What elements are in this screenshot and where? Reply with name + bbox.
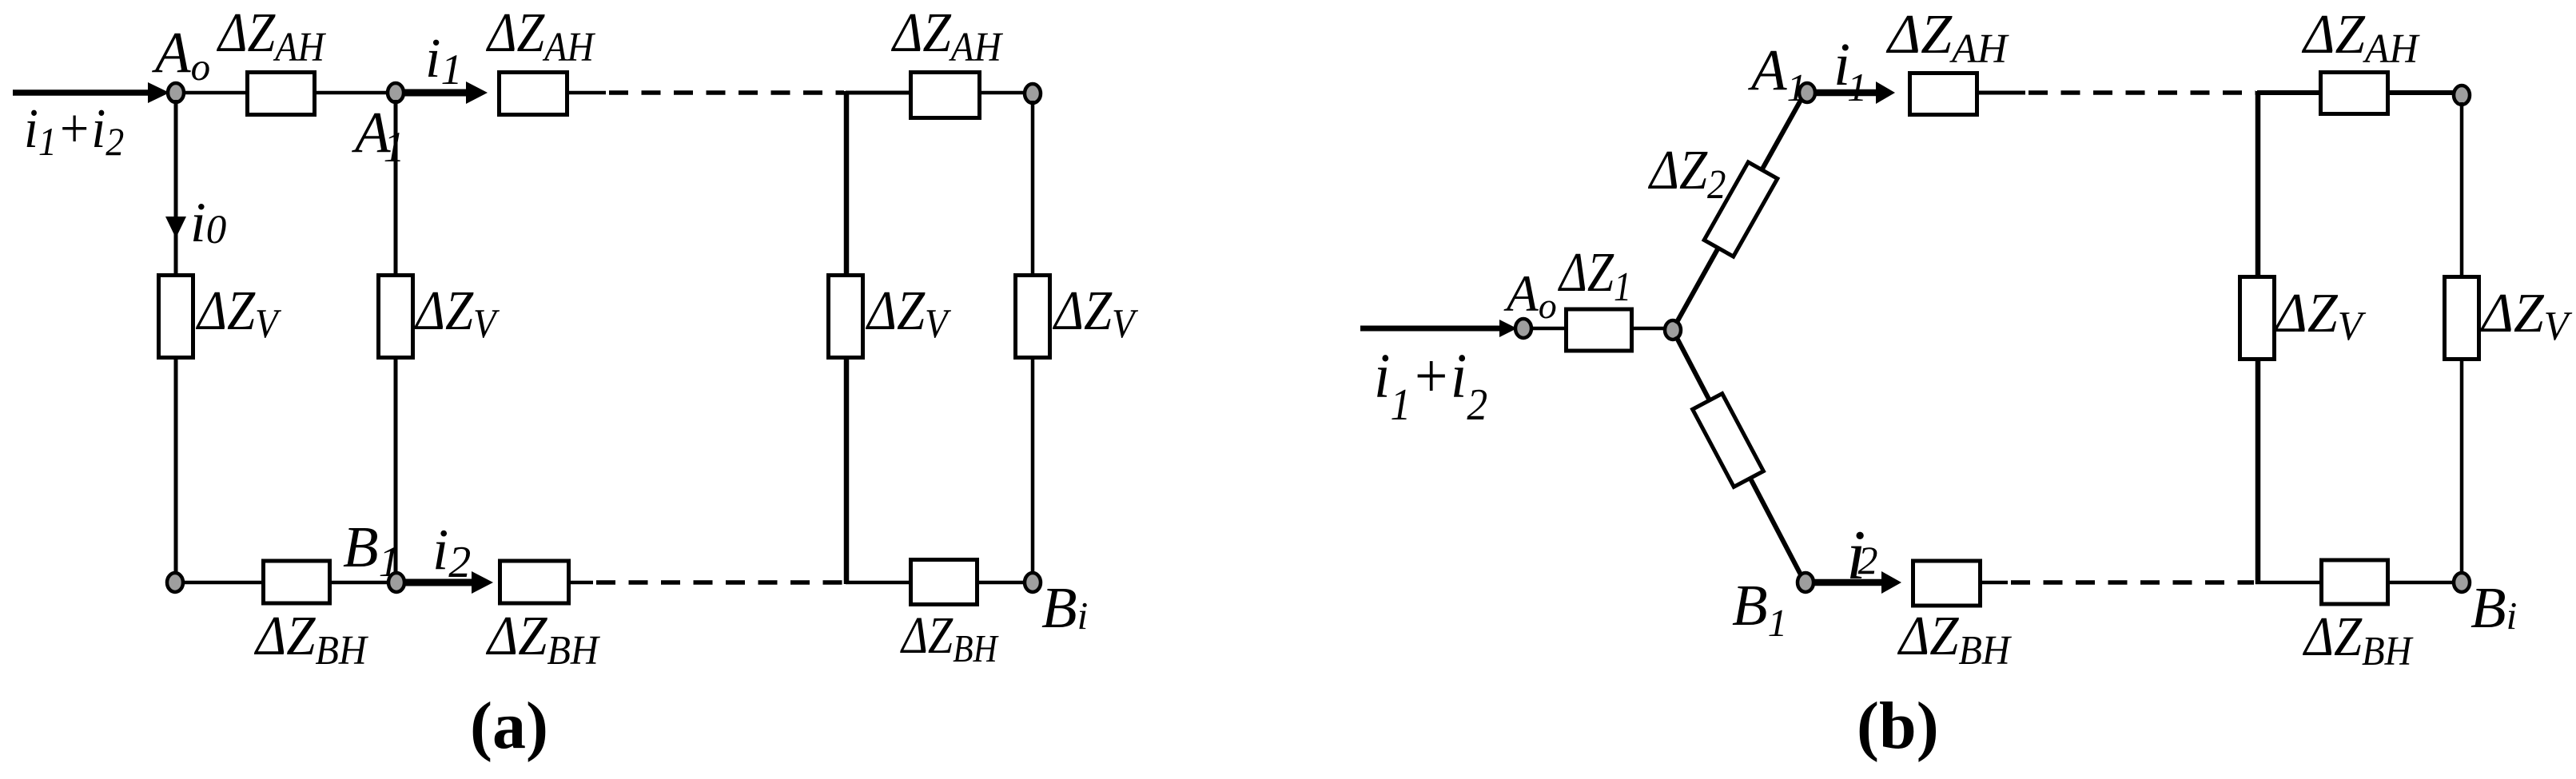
resistor ZV rail4 (b) — [2445, 277, 2479, 360]
current arrow i2 (a) — [404, 579, 472, 586]
wire rail3 to ZBH3 — [846, 581, 911, 585]
resistor ZV rail2 (a) — [379, 276, 413, 358]
resistor ZAH2 (a) — [500, 73, 567, 115]
wire rail3 lower (b) — [2255, 359, 2261, 584]
wire ZBH2 stub — [569, 581, 593, 585]
wire diagonal down to B1 (b) — [1676, 336, 1803, 579]
wire ZAH1 to node A1 — [315, 91, 390, 95]
node Bi (a) — [1025, 573, 1041, 592]
node Bi (b) — [2454, 573, 2470, 592]
wire ZBH1 stub (b) — [1981, 581, 2008, 585]
wire ZAH2 stub — [567, 91, 606, 95]
wire input feed line (b) — [1360, 326, 1501, 332]
wire Z1 to center node (b) — [1632, 327, 1668, 331]
wire ZBH1 to node B1 — [329, 581, 391, 585]
resistor Z1 (b) — [1567, 309, 1632, 351]
wire ZAH2 to top-right node (b) — [2388, 90, 2455, 95]
wire rail3 lower (a) — [844, 357, 850, 584]
wire input feed line (a) — [13, 89, 153, 96]
resistor ZAH3 (a) — [911, 73, 980, 118]
wire rail3 upper (b) — [2255, 91, 2261, 276]
wire rail3 to ZBH2 (b) — [2255, 581, 2322, 585]
resistor ZAH2 (b) — [2321, 73, 2388, 114]
wire ZBH3 to node Bi — [977, 581, 1026, 585]
resistor ZAH1 (b) — [1910, 74, 1977, 115]
wire rail Ao upper — [174, 100, 178, 275]
wire rail Ao lower — [174, 357, 178, 578]
wire rail A1 lower — [394, 357, 398, 578]
resistor ZAH1 (a) — [248, 73, 315, 115]
wire rail A1 upper — [394, 100, 398, 275]
wire dashed top (b) — [2029, 90, 2255, 95]
wire bottom-left to ZBH1 — [183, 581, 265, 585]
node A1 (b) — [1799, 83, 1815, 102]
svg-text:(a): (a) — [470, 689, 548, 763]
wire rail4 upper (b) — [2460, 102, 2464, 276]
wire dashed bottom (b) — [2011, 580, 2254, 585]
wire rail4 upper (a) — [1031, 101, 1035, 275]
wire Ao to resistor Z1 (b) — [1531, 327, 1567, 331]
wire ZAH3 to top-right node — [981, 91, 1026, 95]
node A1 (a) — [388, 83, 404, 102]
arrowhead into node Ao (b) — [1499, 320, 1517, 337]
resistor ZBH1 (a) — [264, 561, 330, 603]
node B1 (b) — [1798, 573, 1814, 592]
wire Ao to resistor ZAH1 — [184, 91, 248, 95]
resistor Z2 diagonal (b) — [1704, 162, 1778, 256]
wire rail3 upper (a) — [844, 91, 850, 275]
wire rail3 to resistor ZAH3 — [846, 91, 911, 95]
wire diagonal up to A1 (b) — [1676, 96, 1803, 324]
node bottom-left (a) — [167, 573, 183, 592]
current arrow i0 (a) — [165, 217, 186, 238]
resistor ZBH1 (b) — [1913, 561, 1981, 606]
resistor ZV rail1 (a) — [159, 276, 193, 358]
node center Y junction (b) — [1665, 320, 1681, 340]
resistor ZV rail4 (a) — [1016, 276, 1050, 358]
node B1 (a) — [388, 573, 404, 592]
resistor ZV rail3 (b) — [2240, 277, 2275, 360]
resistor ZBH2 (b) — [2322, 560, 2388, 604]
resistor ZV rail3 (a) — [829, 276, 863, 358]
current arrow i1 (b) — [1815, 89, 1876, 97]
node top-right (b) — [2454, 85, 2470, 105]
wire ZAH1 stub (b) — [1977, 91, 2025, 95]
node Ao (a) — [168, 83, 184, 102]
node top-right (a) — [1025, 84, 1041, 103]
resistor ZBH2 (a) — [500, 561, 569, 603]
resistor ZBH3 (a) — [911, 560, 977, 605]
resistor Z3 diagonal (b) — [1693, 394, 1764, 487]
arrowhead into node Ao (a) — [148, 82, 169, 103]
wire dashed top (a) — [609, 90, 844, 95]
wire ZBH2 to node Bi (b) — [2387, 581, 2455, 585]
current arrow i2 (b) — [1814, 579, 1881, 586]
node Ao (b) — [1515, 319, 1531, 338]
wire rail4 lower (a) — [1031, 357, 1035, 575]
wire rail4 lower (b) — [2460, 359, 2464, 576]
svg-text:(b): (b) — [1857, 689, 1939, 763]
wire dashed bottom (a) — [596, 580, 844, 585]
wire rail3 to ZAH2 (b) — [2257, 90, 2321, 95]
current arrow i1 (a) — [404, 89, 466, 97]
